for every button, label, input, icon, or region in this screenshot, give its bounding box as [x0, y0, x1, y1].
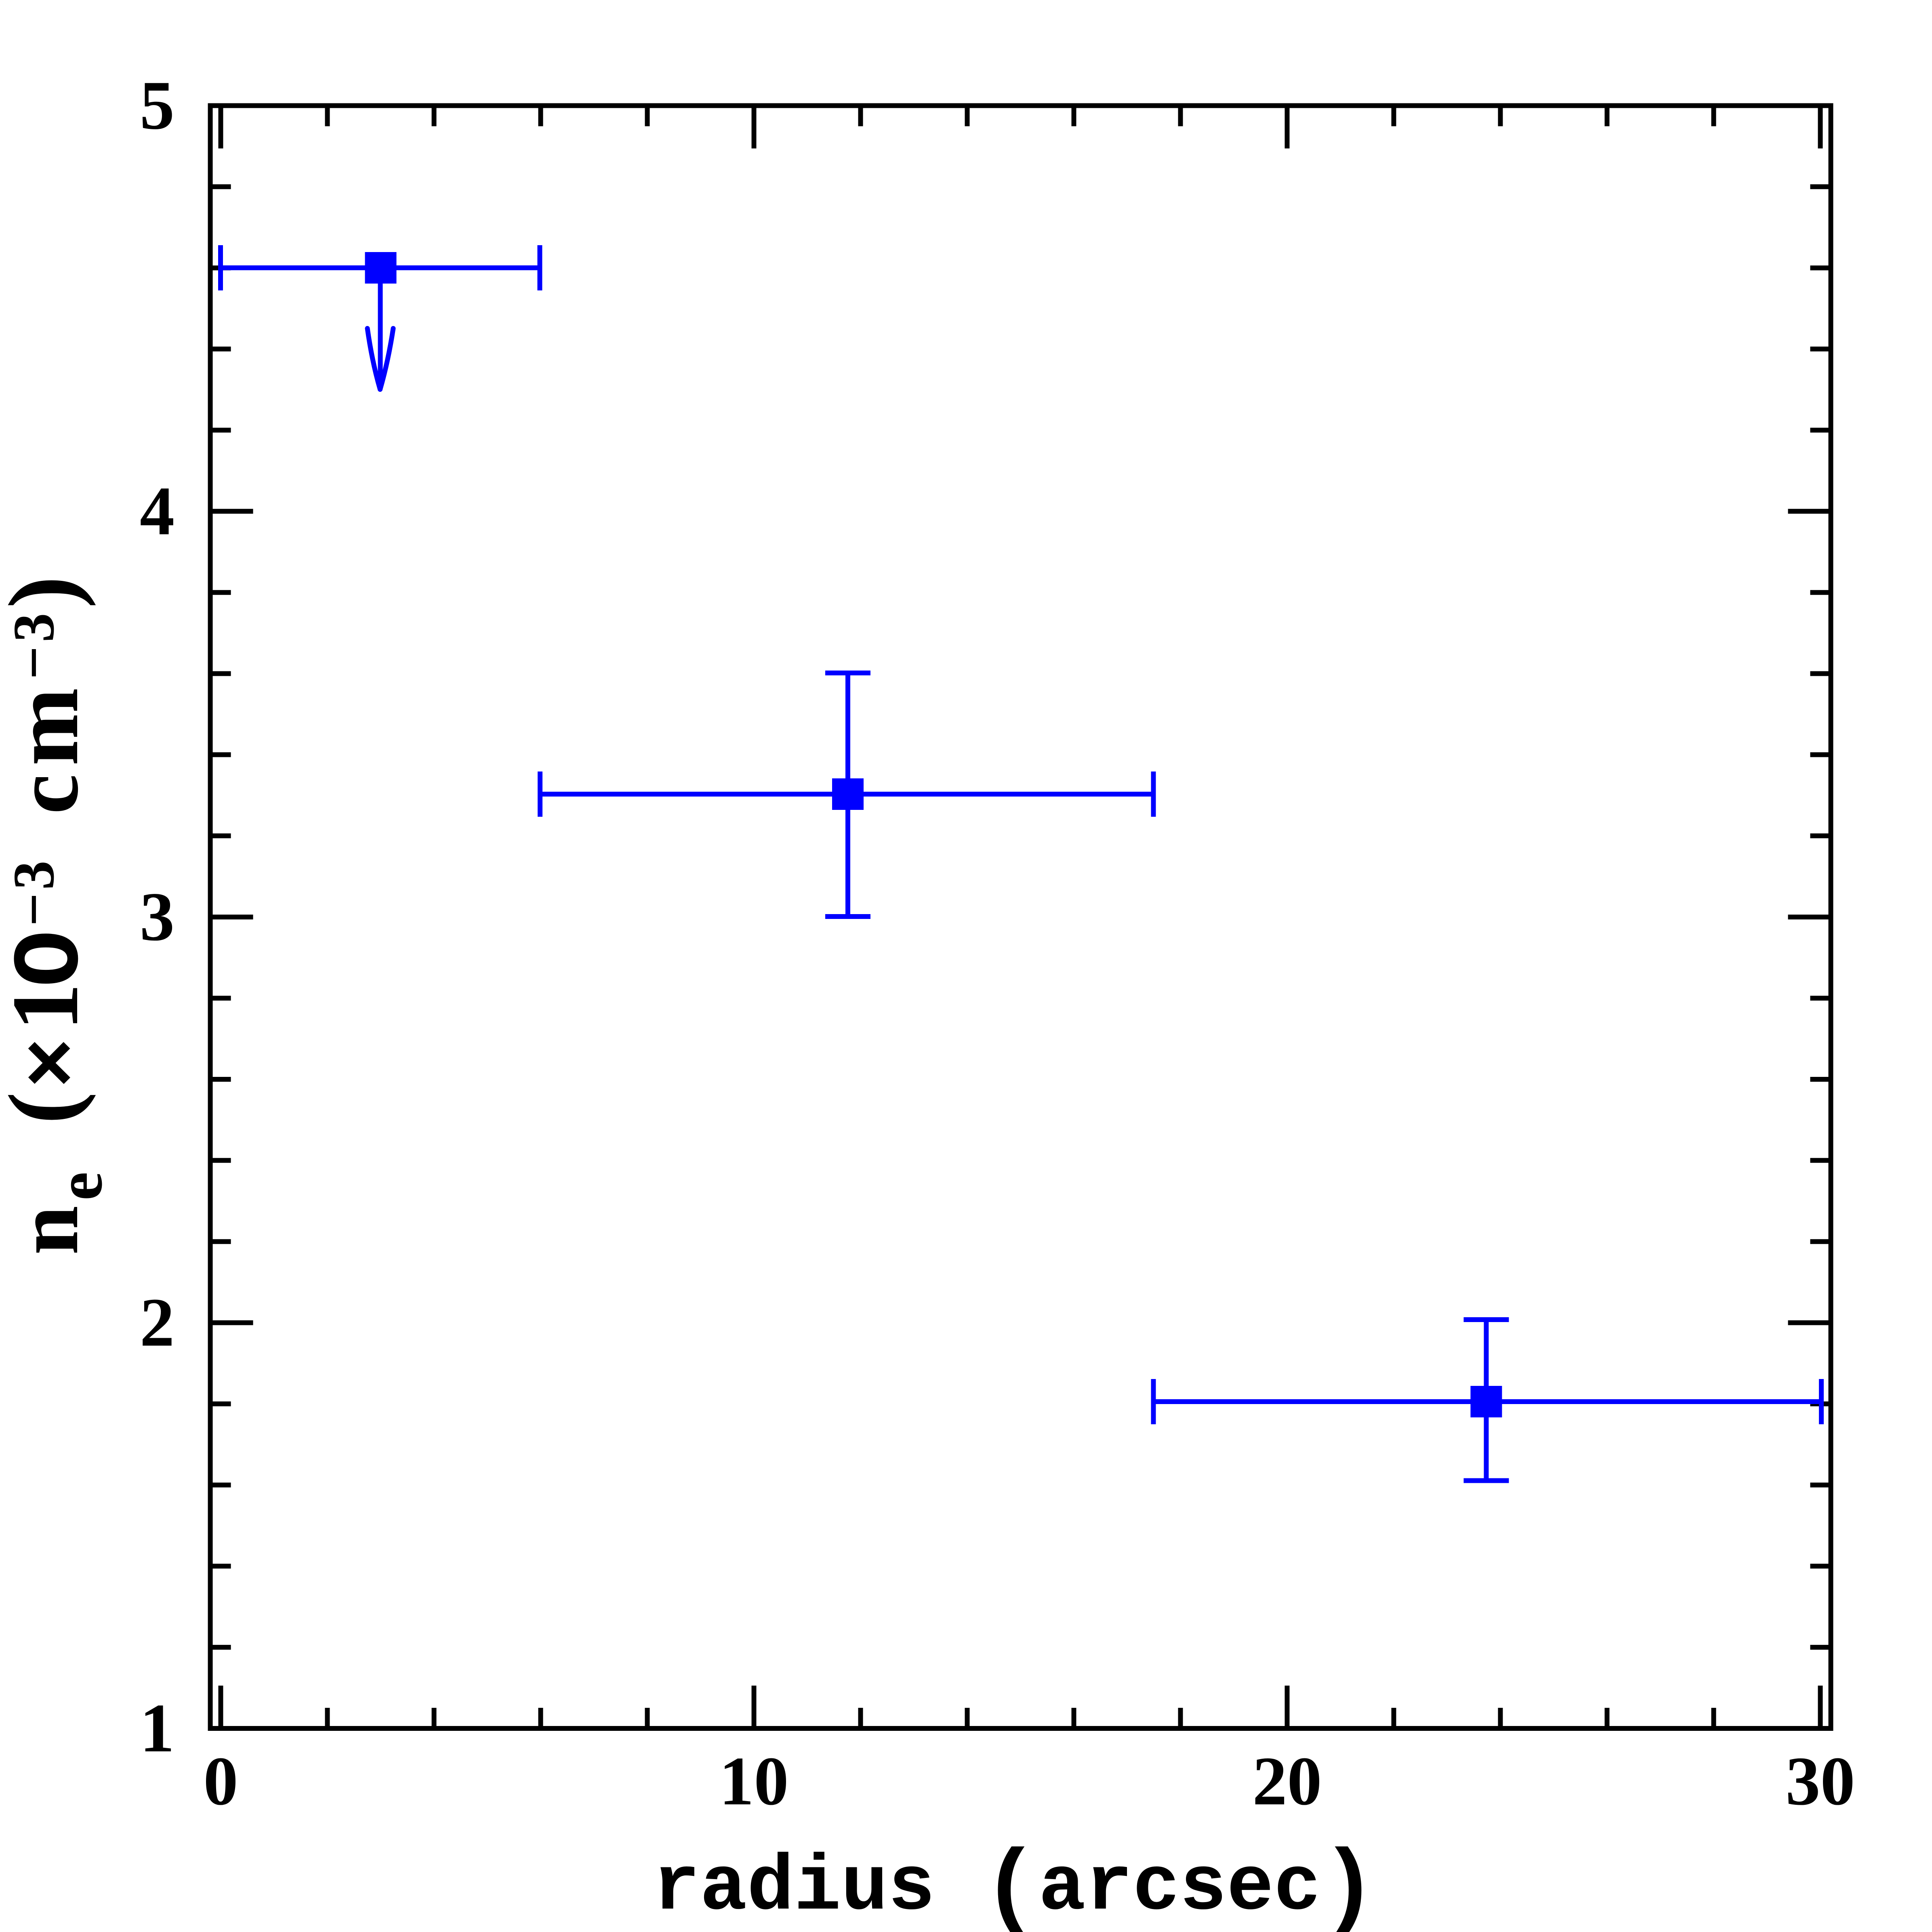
upper-limit arrow head [368, 328, 381, 389]
svg-text:−: − [2, 893, 66, 926]
data point 2 x-error left cap [538, 772, 542, 817]
y-axis minor ticks left [210, 187, 231, 1647]
data point 2 x-error right cap [1151, 772, 1156, 817]
y-axis major ticks left [210, 511, 253, 1323]
y-axis major ticks right [1788, 511, 1831, 1323]
svg-text:c: c [0, 774, 97, 814]
svg-text:4: 4 [140, 473, 174, 550]
data point 3 x-error bar (17.5 to 30 arcsec) [1154, 1399, 1822, 1404]
data point 2 x-error bar (6 to 17.5 arcsec) [540, 792, 1154, 797]
y-axis title: n_e (x10^-3 cm^-3), rotated [0, 576, 116, 1255]
svg-text:1: 1 [0, 983, 98, 1031]
svg-text:3: 3 [2, 861, 66, 890]
svg-text:5: 5 [140, 67, 174, 144]
upper-limit arrow stem [378, 284, 383, 380]
data point 2 y-error bottom cap [825, 914, 870, 919]
x-axis minor ticks bottom [328, 1708, 1714, 1728]
data point 1 square marker [365, 252, 397, 284]
svg-text:O: O [0, 930, 106, 987]
svg-text:−: − [2, 646, 66, 679]
svg-text:n: n [0, 1206, 97, 1255]
data point 1 right cap [537, 245, 542, 290]
x-axis minor ticks top [328, 106, 1714, 126]
svg-text:(: ( [0, 1092, 96, 1124]
svg-text:0: 0 [204, 1743, 238, 1820]
data point 3 y-error top cap [1464, 1317, 1509, 1322]
svg-text:e: e [44, 1172, 116, 1200]
data point 3 y-error bar (1.61 to 2.0) [1484, 1320, 1489, 1481]
svg-text:1: 1 [140, 1690, 174, 1767]
svg-text:30: 30 [1786, 1743, 1855, 1820]
data point 3 y-error bottom cap [1464, 1478, 1509, 1483]
data point 2 y-error bar (3.0 to 3.6) [845, 673, 850, 917]
data point 3 x-error left cap [1151, 1379, 1156, 1424]
plot frame box [210, 106, 1831, 1729]
data point 3 x-error right cap [1819, 1379, 1824, 1424]
svg-text:10: 10 [719, 1743, 789, 1820]
data point 2 square marker [832, 778, 864, 810]
svg-text:20: 20 [1253, 1743, 1322, 1820]
data point 2 y-error top cap [825, 671, 870, 675]
svg-text:m: m [0, 688, 98, 766]
data point 3 square marker [1471, 1386, 1502, 1417]
data point 1 left cap [218, 245, 223, 290]
y-axis minor ticks right [1810, 187, 1831, 1647]
svg-text:×: × [8, 1038, 103, 1088]
svg-text:radius (arcsec): radius (arcsec) [653, 1836, 1377, 1932]
svg-text:3: 3 [2, 613, 66, 643]
data point 1 x-error bar (0 to 6 arcsec) [221, 265, 540, 270]
x-axis major ticks top [221, 106, 1821, 149]
svg-text:): ) [0, 576, 96, 608]
svg-text:2: 2 [140, 1284, 174, 1361]
x-axis major ticks bottom [221, 1686, 1821, 1728]
svg-text:3: 3 [140, 879, 174, 955]
